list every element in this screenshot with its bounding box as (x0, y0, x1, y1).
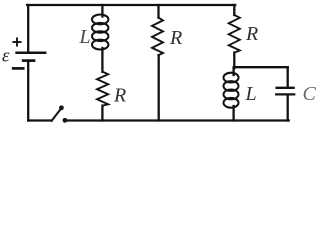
battery bottom plate (short, negative) (23, 59, 34, 62)
battery top plate (long, positive) (17, 52, 46, 55)
svg-text:L: L (245, 83, 257, 105)
svg-text:L: L (79, 26, 91, 48)
wire branch3 middle stem to node (233, 53, 235, 69)
wire top horizontal (27, 4, 235, 6)
inductor L2 coil (224, 73, 239, 108)
wire left vertical upper (top corner to battery) (27, 5, 29, 52)
svg-text:R: R (169, 27, 182, 49)
wire branch2 top stem (157, 5, 159, 18)
plus sign label (13, 38, 20, 45)
inductor L1 coil (92, 15, 108, 50)
wire bottom left segment (corner to switch) (28, 119, 51, 121)
wire capacitor top lead (287, 67, 289, 86)
minus sign label (13, 67, 23, 70)
wire branch1 bottom stem (101, 106, 103, 121)
wire capacitor bottom lead (287, 96, 289, 121)
resistor R1 zigzag (97, 72, 108, 106)
wire left vertical lower (battery to bottom corner) (27, 62, 29, 121)
svg-text:R: R (113, 85, 126, 107)
resistor R2 zigzag (152, 18, 163, 56)
wire branch1 middle stem (101, 48, 103, 72)
wire node to capacitor branch (234, 66, 287, 68)
wire branch2 bottom stem (158, 55, 160, 120)
capacitor C plates (276, 88, 294, 95)
wire branch3 top stem (top-right corner down) (233, 5, 235, 15)
svg-text:ε: ε (2, 46, 10, 67)
svg-text:R: R (245, 23, 258, 45)
battery EMF source (2, 38, 45, 68)
svg-text:C: C (303, 83, 317, 105)
switch S (open blade with contact dots) (52, 105, 68, 122)
wire branch1 top stem (101, 5, 103, 17)
resistor R3 zigzag (229, 15, 240, 53)
wire inductor L2 top stem (232, 67, 234, 75)
wire inductor L2 bottom stem (232, 106, 234, 121)
wire bottom horizontal main (65, 119, 289, 121)
